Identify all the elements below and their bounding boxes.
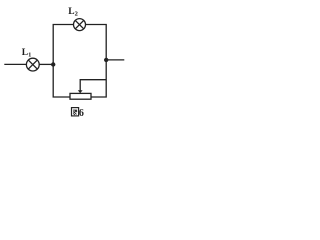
- svg-text:6: 6: [79, 108, 84, 119]
